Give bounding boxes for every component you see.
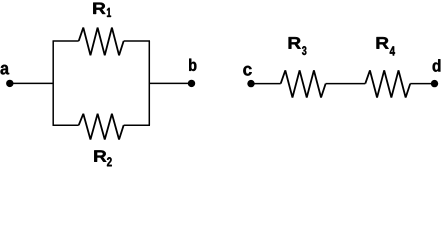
wire — [53, 40, 79, 42]
wire — [53, 124, 79, 126]
label R4 — [377, 37, 396, 55]
wire — [149, 82, 191, 84]
label R2 — [94, 150, 111, 166]
wire — [52, 41, 54, 125]
wire — [148, 41, 150, 125]
node d — [431, 59, 441, 87]
node c — [243, 66, 254, 88]
label R3 — [289, 37, 307, 55]
wire — [10, 82, 53, 84]
wire — [326, 83, 366, 85]
node b — [188, 59, 197, 88]
resistor R2 — [79, 114, 124, 140]
resistor R4 — [365, 70, 410, 97]
wire — [251, 83, 281, 85]
resistor R3 — [281, 70, 326, 97]
label R1 — [93, 3, 111, 17]
wire — [124, 124, 150, 126]
wire — [124, 40, 150, 42]
resistor R1 — [79, 28, 124, 56]
node a — [1, 65, 14, 87]
wire — [410, 83, 434, 85]
